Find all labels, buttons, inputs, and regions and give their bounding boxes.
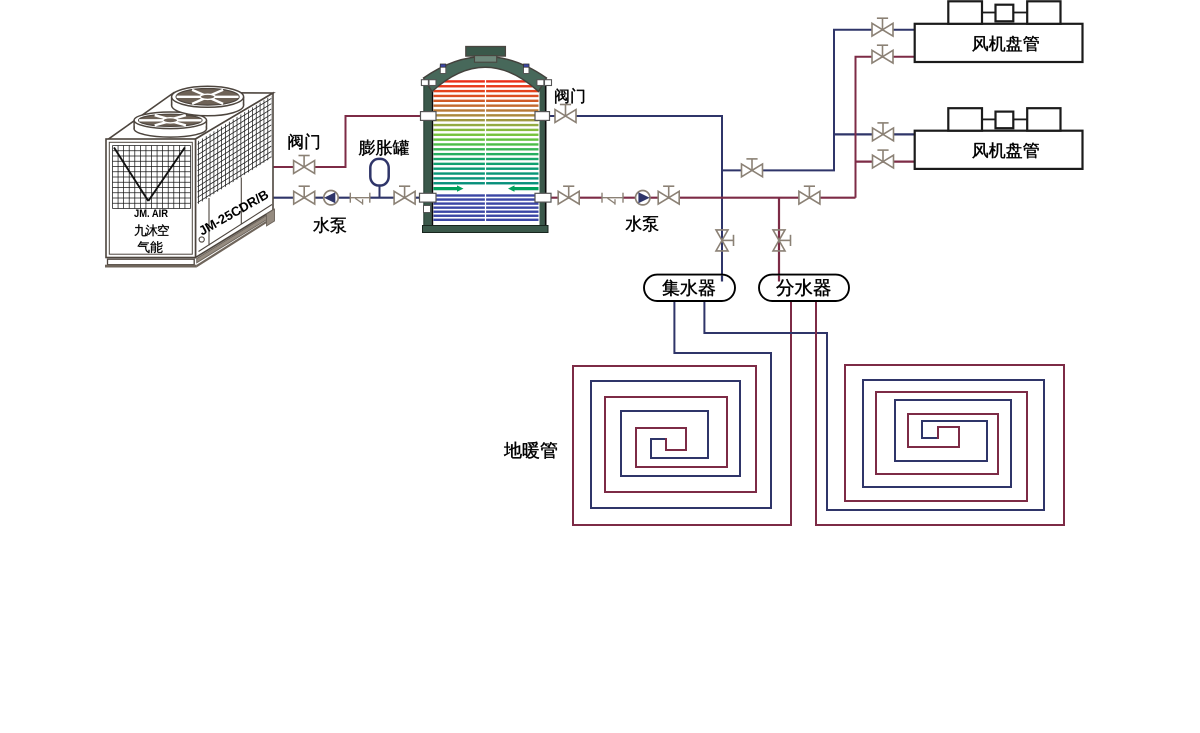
tank temperature stripes: [434, 80, 539, 221]
expansion tank: [370, 159, 388, 186]
tank flange lower-left: [420, 193, 437, 202]
fan coil unit 2: [915, 131, 1083, 169]
tank dome clamps: [421, 80, 428, 86]
check valve on red line: [602, 196, 623, 199]
fan 1 (front): [134, 121, 206, 138]
pipe stubs into stadiums: [721, 276, 723, 282]
floor heating coil left red spiral: [573, 299, 791, 525]
heat pump front grille: [113, 146, 191, 209]
valve fan coil 1 blue: [882, 18, 884, 29]
label fan coil 2: [972, 142, 1038, 158]
heat pump right face grille: [198, 90, 272, 210]
wire red supply heat-pump to tank: [271, 116, 423, 167]
valve fan coil 2 blue: [882, 123, 884, 133]
label distributor: [776, 279, 830, 297]
wire red branch down to distributor: [778, 198, 780, 276]
label valve (tank): [555, 88, 584, 104]
valve on red line from heat pump: [303, 156, 305, 167]
fan coil unit 1: [915, 24, 1083, 62]
tank center seam: [485, 78, 487, 224]
valve on red main before riser: [808, 186, 810, 197]
heat pump front face: [106, 139, 196, 258]
label floor heating pipe: [504, 442, 557, 459]
label valve (heat pump): [289, 133, 319, 149]
heat pump right face: [196, 93, 274, 258]
heat pump top face: [108, 93, 273, 140]
wire red tee to fan coil 2: [856, 161, 915, 163]
valve top-right of tank: [565, 105, 567, 116]
distributor stadium: [759, 275, 849, 301]
label collector: [662, 279, 715, 296]
right face panel lines: [199, 205, 273, 252]
wire blue branch to fan coils riser: [722, 30, 914, 171]
wire blue return tank to heat-pump: [271, 197, 420, 199]
tank flow arrows: [434, 185, 464, 191]
heat pump base plinth: [108, 259, 195, 265]
check valve left blue line: [350, 196, 370, 199]
right face screw hole: [199, 237, 204, 242]
tank base: [423, 226, 549, 233]
buffer tank body: [433, 64, 540, 226]
tank right wall: [540, 80, 545, 226]
valve fan coil 1 red: [882, 45, 884, 56]
valve above collector: [723, 239, 734, 241]
wire blue collector to left floor coil: [591, 299, 771, 508]
heat pump base skid right: [197, 212, 273, 263]
fan 2 (rear): [172, 95, 244, 116]
svg-text:JM. AIR: JM. AIR: [134, 208, 168, 220]
valve on blue line near heat pump: [303, 186, 305, 197]
tank dome: [424, 57, 547, 92]
tank bolt lower-left: [424, 206, 431, 213]
pump on red line (to loads): [636, 191, 650, 205]
wire red main tank bottom-right: [548, 197, 856, 199]
wire red riser to fan coils: [856, 57, 915, 198]
valve above distributor: [780, 239, 791, 241]
valve on blue fan-coil branch: [751, 159, 753, 170]
valve on red line right of tank: [568, 186, 570, 197]
wire blue tank top-right to junction: [548, 116, 722, 276]
pump on blue line (to heat pump): [324, 191, 338, 205]
expansion tank stem: [379, 185, 381, 198]
tank flange lower-right: [535, 193, 551, 202]
collector stadium: [644, 275, 735, 301]
tank flange upper-left: [421, 112, 437, 121]
grille V brace: [114, 148, 148, 202]
wire blue tee to fan coil 2: [834, 133, 914, 135]
tank flange upper-right: [535, 112, 550, 121]
valve right of red pump: [668, 186, 670, 197]
floor heating coil right red spiral: [816, 299, 1064, 525]
tank left wall: [424, 80, 432, 226]
valve fan coil 2 red: [882, 150, 884, 161]
label pump right: [625, 216, 658, 232]
valve on blue line left of tank: [404, 186, 406, 197]
tank top cap: [466, 47, 506, 57]
label fan coil 1: [972, 36, 1038, 52]
label expansion tank: [359, 140, 409, 156]
wire blue collector to right floor coil: [704, 299, 1044, 510]
label pump left: [313, 217, 346, 233]
